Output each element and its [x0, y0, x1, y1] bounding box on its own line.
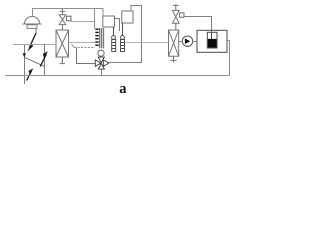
switch arrow S2: [40, 52, 47, 67]
box K2: [122, 11, 133, 23]
switch arrow S3: [27, 69, 33, 81]
tank drain: [227, 41, 230, 76]
tank T1: [197, 30, 227, 52]
switch arrow S1: [28, 33, 36, 51]
valve V1: [59, 9, 71, 31]
pipe E1 to heater: [69, 42, 96, 44]
pipe V2 to riser: [109, 62, 142, 64]
pipe P1: [13, 44, 56, 46]
left switch block wire B: [44, 45, 46, 76]
heat exchanger E1: [56, 30, 69, 64]
pipe valve V1 to box K1: [71, 21, 95, 23]
top rail: [33, 9, 104, 17]
pipe to E2: [126, 42, 169, 44]
pipe V3 to tank: [184, 17, 212, 33]
electrode F1: [112, 27, 116, 52]
bell B1: [23, 16, 42, 33]
box K1 stub: [115, 19, 120, 32]
pump pipes: [179, 41, 183, 43]
four-way valve V2: [95, 57, 109, 69]
box K2 riser: [131, 6, 142, 63]
heat exchanger E2: [169, 30, 179, 62]
heating element in tank: [207, 32, 217, 48]
capillary dashed line: [74, 47, 95, 49]
control pipe to valve V2: [77, 48, 95, 64]
electrode F2: [121, 23, 125, 52]
svg-text:a: a: [119, 81, 127, 97]
actuator circle: [98, 50, 104, 56]
bottom rail: [5, 75, 230, 77]
valve V2 drain: [101, 69, 103, 75]
link diagonal: [24, 57, 44, 66]
left switch block wire A: [24, 45, 26, 85]
pump M1: [182, 36, 192, 46]
heater H1: [95, 9, 104, 49]
capillary tick: [72, 44, 75, 47]
arrowhead node: [23, 53, 26, 57]
box K1: [103, 16, 115, 27]
valve V3: [172, 4, 184, 30]
